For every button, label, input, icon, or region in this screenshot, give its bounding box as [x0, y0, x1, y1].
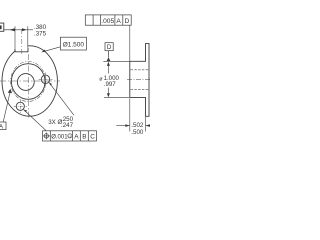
svg-text:.005: .005	[101, 18, 114, 25]
middle circle (boss)	[11, 64, 45, 100]
svg-text:A: A	[74, 134, 79, 141]
side view: flange	[130, 44, 149, 117]
svg-text:D: D	[107, 44, 112, 51]
svg-text:.247: .247	[61, 122, 74, 129]
datum A	[0, 122, 6, 130]
3X holes leader	[49, 82, 74, 115]
hidden hole lines	[131, 69, 150, 71]
svg-text:A: A	[0, 124, 3, 130]
top FCF	[85, 15, 131, 25]
Ø1.500 callout box	[60, 37, 86, 50]
svg-text:U: U	[69, 135, 72, 139]
position symbol	[44, 134, 48, 138]
centerline horizontal	[0, 80, 60, 82]
svg-text:D: D	[125, 18, 130, 25]
.502/.500 dimension	[129, 98, 131, 131]
bottom FCF	[43, 131, 97, 141]
inner circle (center hole)	[17, 74, 34, 91]
outer circle (flange OD)	[2, 46, 57, 116]
keyway slot	[15, 43, 27, 52]
svg-text:B: B	[82, 134, 86, 141]
hole2 leader to bottom FCF	[24, 110, 46, 131]
datum D box	[105, 43, 113, 51]
svg-text:.375: .375	[34, 30, 47, 37]
Ø1.000 dimension	[103, 60, 129, 62]
FCF leader to boss extension	[129, 25, 131, 61]
svg-text:.500: .500	[131, 129, 144, 136]
modifier circle	[68, 134, 72, 138]
centerline vertical	[28, 54, 30, 119]
hole 2	[16, 102, 24, 110]
hole 1	[41, 75, 49, 83]
bolt circle	[11, 62, 46, 102]
svg-text:.997: .997	[104, 81, 116, 88]
svg-text:A: A	[116, 18, 121, 25]
svg-text:Ø.001: Ø.001	[51, 135, 68, 141]
left cut FCF	[0, 23, 4, 31]
svg-text:C: C	[90, 134, 95, 141]
slot dimension .380/.375	[14, 26, 16, 49]
texts	[0, 18, 144, 141]
svg-text:Ø1.500: Ø1.500	[63, 42, 85, 49]
